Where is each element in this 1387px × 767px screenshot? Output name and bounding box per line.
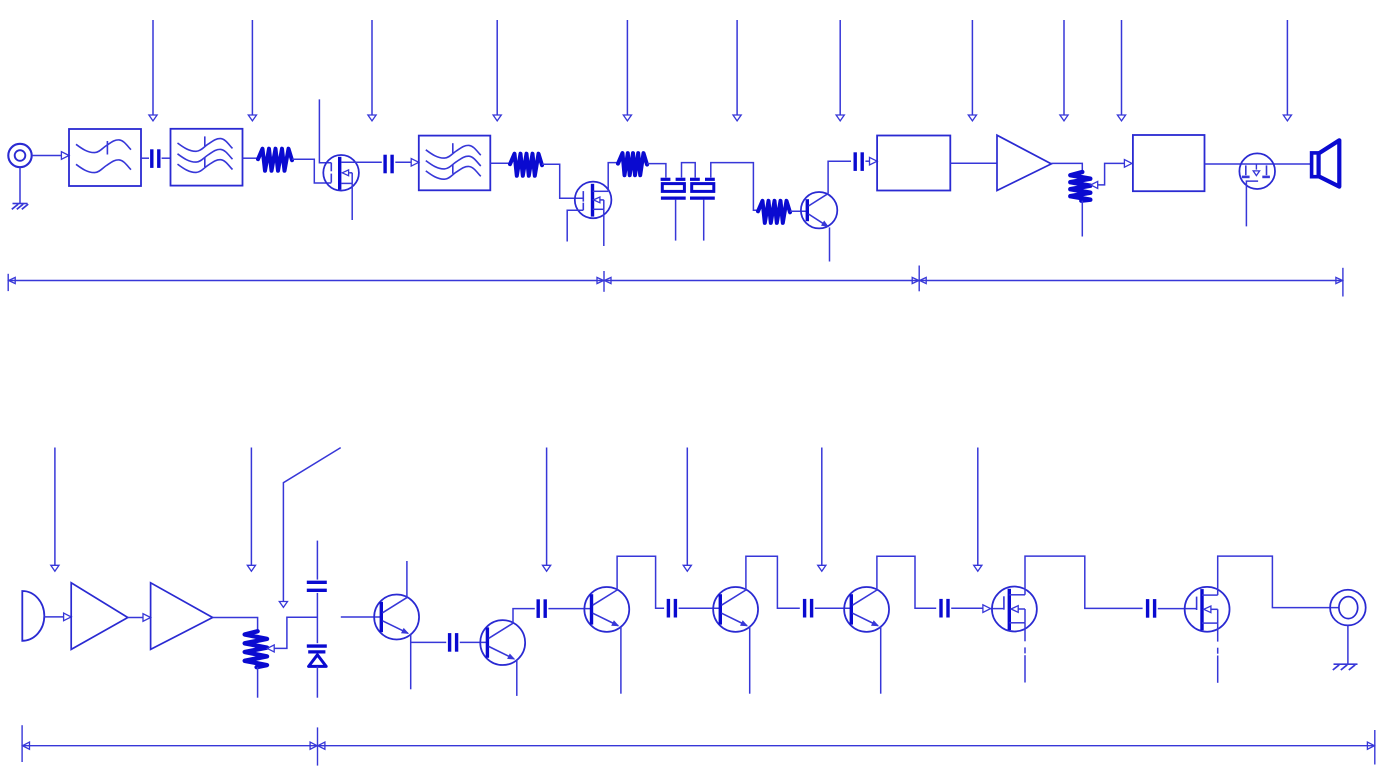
speaker LS1 xyxy=(1312,153,1319,177)
wire (collector) xyxy=(877,556,936,608)
wire (bottom of R2) xyxy=(257,667,259,698)
leader line xyxy=(283,448,340,602)
potentiometer R1 xyxy=(1070,172,1090,201)
wire (drain) xyxy=(1025,556,1143,608)
varactor D1 xyxy=(307,644,327,647)
transistor Q10 (MOSFET) xyxy=(992,587,1037,632)
wire xyxy=(32,155,62,157)
wire xyxy=(542,164,583,198)
capacitor C3 xyxy=(854,152,857,171)
ground xyxy=(13,203,28,205)
arrow into Q10 xyxy=(983,605,991,613)
wire xyxy=(991,608,1005,610)
wire (emitter) xyxy=(749,627,751,694)
microphone MIC1 xyxy=(22,591,44,641)
dimension line D1 xyxy=(8,280,1343,282)
filter FL2 xyxy=(171,129,243,186)
ceramic filter FL5 xyxy=(690,178,700,181)
transistor Q5 (BJT) xyxy=(374,595,419,640)
annotation arrow xyxy=(736,20,738,115)
wire xyxy=(162,157,171,159)
wire xyxy=(1205,163,1312,165)
inductor L2 xyxy=(510,154,542,176)
wire xyxy=(490,162,510,164)
wire (collector) xyxy=(828,161,851,193)
capacitor C1 xyxy=(150,149,153,168)
annotation arrow xyxy=(54,448,56,566)
wire xyxy=(1051,163,1082,171)
wire (emitter) xyxy=(829,227,831,261)
amplifier A2 xyxy=(71,583,128,650)
capacitor C6 xyxy=(537,599,540,618)
wire xyxy=(711,163,758,211)
wiper arrow xyxy=(1091,181,1098,188)
transistor Q3 (BJT) xyxy=(801,192,837,228)
wire (bottom of R1) xyxy=(1081,201,1083,237)
wire xyxy=(362,161,382,163)
arrow into FL1 xyxy=(61,152,69,160)
block U1 xyxy=(877,136,950,191)
dimension line D2 xyxy=(22,745,1375,747)
wire (source) xyxy=(351,183,353,220)
capacitor C10 xyxy=(1146,599,1149,618)
wire xyxy=(141,157,149,159)
filter FL1 xyxy=(69,129,141,186)
transistor Q4 (MOSFET, series) xyxy=(1239,153,1275,189)
transistor Q2 (dual-gate MOSFET) xyxy=(575,182,612,219)
connector J2 (output) xyxy=(1330,590,1366,626)
wire xyxy=(647,164,666,178)
inductor L4 xyxy=(758,201,790,223)
capacitor C7 xyxy=(667,599,670,618)
arrow into U1 xyxy=(870,157,878,165)
wire xyxy=(128,617,143,619)
wire (source) xyxy=(603,209,605,246)
annotation arrow xyxy=(1121,20,1123,115)
wire (collector) xyxy=(406,561,408,598)
potentiometer R2 xyxy=(245,631,267,667)
arrow into A2 xyxy=(64,613,72,621)
inductor L3 xyxy=(618,153,647,175)
capacitor C2 xyxy=(383,155,386,174)
annotation arrow xyxy=(1286,20,1288,115)
wire (emitter) xyxy=(880,627,882,694)
wire xyxy=(951,607,983,609)
wire xyxy=(341,616,382,618)
wire xyxy=(790,210,807,212)
wire xyxy=(395,161,411,163)
transistor Q6 (BJT) xyxy=(480,620,525,665)
annotation arrow xyxy=(971,20,973,115)
wire xyxy=(460,641,488,643)
wire xyxy=(1158,608,1197,610)
transistor Q11 (MOSFET) xyxy=(1185,587,1230,632)
wire xyxy=(950,162,997,164)
wire xyxy=(316,593,318,643)
wire (drain) xyxy=(1218,556,1339,608)
annotation arrow xyxy=(152,20,154,115)
wire xyxy=(44,616,63,618)
arrow into U2 xyxy=(1124,160,1132,168)
wire to ground xyxy=(1347,625,1349,664)
capacitor C8 xyxy=(803,599,806,618)
wire xyxy=(865,160,869,162)
wire xyxy=(679,607,721,609)
amplifier A3 xyxy=(151,583,213,650)
arrow into A3 xyxy=(143,614,151,622)
wire xyxy=(548,608,591,610)
transistor Q1 (dual-gate MOSFET) xyxy=(323,155,359,191)
wire (drain) xyxy=(608,163,618,192)
annotation arrow xyxy=(371,20,373,115)
amplifier A1 xyxy=(997,135,1051,190)
wire (emitter) xyxy=(410,634,412,689)
wire (collector) xyxy=(617,556,664,608)
wire xyxy=(213,618,258,632)
annotation arrow xyxy=(1063,20,1065,115)
annotation arrow xyxy=(821,448,823,566)
annotation arrow xyxy=(686,448,688,566)
annotation arrow xyxy=(626,20,628,115)
wire xyxy=(243,157,259,159)
wire xyxy=(815,607,852,609)
wire to ground xyxy=(19,167,21,203)
wire (gate-2 bias) xyxy=(319,99,331,162)
wire (emitter) xyxy=(620,627,622,694)
wire (wiper) xyxy=(1098,163,1125,185)
wire (emitter) xyxy=(516,660,518,696)
wire (gate-2 to bias) xyxy=(567,210,583,241)
capacitor C5 xyxy=(448,633,451,652)
annotation arrow xyxy=(250,448,252,566)
wire (bridge) xyxy=(682,163,696,178)
connector J1 (antenna) xyxy=(8,144,31,167)
annotation arrow xyxy=(839,20,841,115)
wire xyxy=(316,666,318,697)
filter FL3 xyxy=(419,136,491,191)
arrow into FL3 xyxy=(411,159,419,167)
annotation arrow xyxy=(977,448,979,566)
inductor L1 xyxy=(258,149,292,171)
capacitor C9 xyxy=(939,599,942,618)
wire (wiper) xyxy=(274,617,317,648)
annotation arrow xyxy=(496,20,498,115)
wire (collector) xyxy=(746,556,800,608)
annotation arrow xyxy=(546,448,548,566)
transistor Q8 (BJT) xyxy=(713,587,758,632)
wiper arrow xyxy=(267,645,274,652)
wire xyxy=(316,541,318,580)
transistor Q7 (BJT) xyxy=(584,587,629,632)
wire (collector) xyxy=(513,609,535,624)
transistor Q9 (BJT) xyxy=(844,587,889,632)
ceramic filter FL4 xyxy=(661,178,671,181)
block U2 xyxy=(1133,135,1205,191)
ground xyxy=(1334,663,1358,665)
capacitor C4 xyxy=(307,581,327,584)
wire xyxy=(292,159,331,183)
annotation arrow xyxy=(251,20,253,115)
wire xyxy=(411,641,447,643)
